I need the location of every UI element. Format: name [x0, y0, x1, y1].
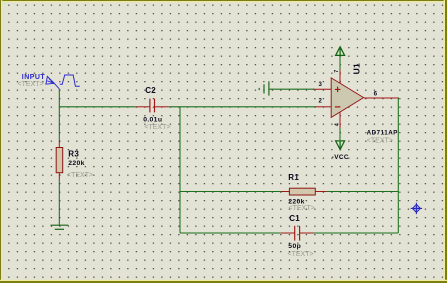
wire C1 branch left — [180, 232, 281, 234]
wire R1 branch right — [326, 191, 398, 193]
ground (noninverting input) — [259, 81, 269, 95]
svg-text:C1: C1 — [289, 214, 300, 223]
svg-text:220k: 220k — [68, 160, 85, 167]
wire output vertical — [397, 98, 399, 233]
input waveform — [60, 75, 80, 86]
terminal INPUT — [46, 76, 60, 89]
wire output corner (pin6 to vertical) — [398, 97, 399, 99]
svg-text:4: 4 — [334, 123, 340, 126]
wire R3 to ground — [58, 181, 60, 225]
wire pin 4 to -VCC arrow — [339, 128, 341, 140]
svg-text:<TEXT>: <TEXT> — [288, 251, 314, 258]
wire C2 to op-amp pin 2 — [169, 106, 316, 108]
capacitor C1 — [281, 226, 314, 241]
svg-text:<TEXT>: <TEXT> — [367, 137, 393, 144]
svg-text:C2: C2 — [145, 86, 156, 95]
svg-text:<TEXT>: <TEXT> — [289, 205, 315, 212]
svg-text:<TEXT>: <TEXT> — [144, 124, 170, 131]
wire main horizontal (input to C2) — [59, 106, 135, 108]
svg-text:<TEXT>: <TEXT> — [18, 81, 44, 88]
wire feedback left vertical — [179, 107, 181, 233]
svg-text:R1: R1 — [288, 173, 299, 182]
ground (input branch) — [51, 225, 69, 229]
wire input drop (vertical from terminal) — [58, 89, 60, 140]
wire +VCC arrow to pin 7 — [339, 55, 341, 70]
svg-text:-VCC: -VCC — [332, 154, 349, 161]
svg-text:0.01u: 0.01u — [143, 116, 162, 123]
svg-text:U1: U1 — [351, 63, 361, 74]
op-amp U1 — [313, 70, 398, 128]
svg-text:7: 7 — [334, 70, 340, 73]
capacitor C2 — [136, 99, 169, 113]
wire ground to op-amp pin 3 — [269, 88, 314, 90]
svg-text:<TEXT>: <TEXT> — [67, 172, 93, 179]
power +VCC arrow — [336, 47, 345, 56]
wire C1 branch right — [314, 232, 399, 234]
svg-text:INPUT: INPUT — [22, 74, 46, 81]
resistor R3 — [56, 140, 63, 181]
svg-text:6: 6 — [374, 90, 378, 97]
svg-text:R3: R3 — [68, 150, 79, 159]
origin marker (blue cross) — [411, 203, 422, 214]
svg-text:50p: 50p — [288, 243, 301, 250]
resistor R1 — [281, 188, 327, 195]
power -VCC arrow — [336, 141, 345, 150]
wire R1 branch left — [180, 191, 281, 193]
svg-text:AD711AP: AD711AP — [367, 129, 398, 136]
